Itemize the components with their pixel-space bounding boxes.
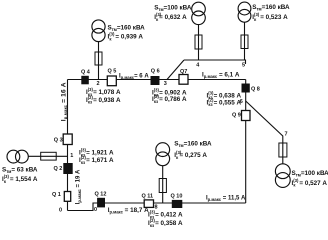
svg-text:I(3)к = 0,939 А: I(3)к = 0,939 А (108, 32, 144, 42)
svg-text:I(3)к= 0,632 А: I(3)к= 0,632 А (154, 12, 187, 22)
svg-text:Q 6: Q 6 (151, 69, 160, 75)
svg-text:Q 3: Q 3 (54, 138, 63, 144)
svg-text:Q 2: Q 2 (54, 166, 63, 172)
svg-text:0: 0 (59, 208, 62, 214)
svg-text:Q 10: Q 10 (171, 194, 183, 200)
svg-text:Iр.макс = 11,5 А: Iр.макс = 11,5 А (206, 196, 246, 203)
svg-text:2: 2 (97, 81, 100, 87)
svg-text:Iр.макс = 19 А: Iр.макс = 19 А (76, 169, 83, 204)
svg-text:Q 9: Q 9 (232, 113, 241, 119)
svg-text:I(3)к = 0,523 А: I(3)к = 0,523 А (252, 12, 288, 22)
svg-text:I(2)кз= 0,786 А: I(2)кз= 0,786 А (152, 94, 187, 104)
svg-text:Q 5: Q 5 (108, 69, 117, 75)
svg-text:Q 12: Q 12 (95, 192, 107, 198)
svg-text:I(2)кз= 0,555 А: I(2)кз= 0,555 А (207, 97, 242, 107)
svg-text:I(3)к = 1,554 А: I(3)к = 1,554 А (2, 174, 38, 184)
svg-text:8: 8 (155, 205, 158, 211)
svg-text:Q 1: Q 1 (52, 192, 61, 198)
svg-text:Q 11: Q 11 (142, 194, 154, 200)
svg-text:I(3)к = 0,527 А: I(3)к = 0,527 А (292, 178, 328, 188)
svg-text:I(3)к= 0,275 А: I(3)к= 0,275 А (174, 150, 207, 160)
svg-text:0: 0 (94, 207, 97, 213)
svg-text:I(2)кз= 0,358 А: I(2)кз= 0,358 А (148, 218, 183, 228)
svg-text:Iр.макс= 6 А: Iр.макс= 6 А (119, 74, 149, 81)
svg-text:I(2)кз= 1,671 А: I(2)кз= 1,671 А (79, 155, 114, 165)
svg-text:7: 7 (285, 131, 288, 137)
svg-text:3: 3 (164, 81, 167, 87)
svg-text:I(2)кз= 0,938 А: I(2)кз= 0,938 А (86, 95, 121, 105)
svg-text:5: 5 (242, 63, 245, 69)
svg-text:Q 4: Q 4 (81, 70, 91, 76)
svg-text:Q7: Q7 (180, 69, 187, 75)
svg-text:1: 1 (70, 153, 73, 159)
svg-text:Q 8: Q 8 (251, 87, 260, 93)
